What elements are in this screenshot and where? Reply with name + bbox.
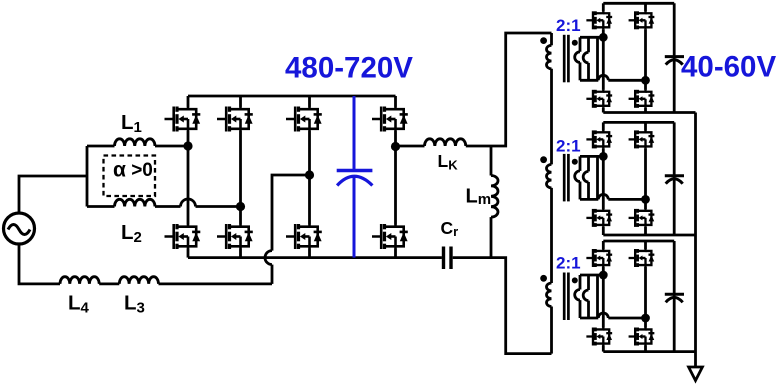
wire bridge1 lega mid	[602, 29, 605, 90]
wire bridge3 lega drain up	[602, 241, 605, 249]
mosfet bridge3 a high-side	[586, 249, 612, 267]
output capacitor C2 lead	[673, 122, 676, 235]
input bridge bottom rail left	[188, 256, 442, 259]
wire L3 to return riser	[159, 282, 273, 285]
label L2	[121, 221, 142, 246]
wire leg3 drain up	[308, 96, 311, 107]
wire bridge3 legb mid	[644, 267, 647, 328]
label 2:1 T3	[556, 254, 581, 273]
dc-link capacitor top plate	[337, 169, 373, 172]
wire leg4 source down	[394, 249, 397, 258]
wire bridge2 lega source down	[602, 227, 605, 235]
output capacitor C3 plate	[665, 293, 684, 296]
label Cr	[441, 218, 459, 239]
node leg4 midpoint	[391, 142, 400, 151]
dc-link capacitor lower lead	[353, 176, 356, 257]
wire hop to leg2 node	[196, 205, 241, 208]
transformer T1 core	[564, 35, 568, 83]
wire bridge3 legb source down	[644, 345, 647, 351]
wire split vertical	[86, 146, 89, 207]
wire bridge3 lega source down	[602, 345, 605, 351]
transformer T1 secondary right side	[596, 37, 599, 80]
wire leg1 drain up	[187, 96, 190, 107]
wire L4 to L3	[99, 282, 119, 285]
wire hop over bottom rail	[265, 251, 272, 265]
ac source V1	[4, 213, 35, 244]
transformer T3 secondary winding b	[583, 275, 588, 318]
label Lm	[466, 186, 492, 209]
transformer T3 secondary right side	[596, 275, 599, 318]
output capacitor C3 lead	[673, 241, 676, 352]
output capacitor C1 plate	[665, 55, 684, 58]
wire primary chain seg0	[550, 33, 553, 45]
mosfet bridge3 b high-side	[629, 249, 655, 267]
transformer T1 primary dot	[540, 37, 547, 44]
bridge2 bottom rail	[603, 234, 695, 237]
svg-text:2:1: 2:1	[556, 254, 581, 273]
bridge1 top rail	[603, 2, 674, 5]
dc-link capacitor upper lead	[353, 96, 356, 172]
mosfet Q5 input leg3 high-side	[286, 107, 322, 132]
wire T2 secondary top to bridge	[580, 155, 603, 158]
bridge2 top rail	[603, 121, 674, 124]
wire leg1 source down	[187, 249, 190, 258]
transformer T1 secondary dot	[572, 40, 578, 46]
wire bridge3 lega mid	[602, 267, 605, 328]
mosfet bridge2 a low-side	[586, 209, 612, 227]
inductor L3	[119, 277, 158, 284]
wire bridge1 lega source down	[602, 108, 605, 113]
wire bridge2 lega mid	[602, 148, 605, 209]
svg-text:480-720V: 480-720V	[285, 52, 413, 85]
transformer T2 core	[564, 154, 568, 202]
bridge1 bottom rail	[603, 111, 695, 114]
dc-link capacitor curved plate	[337, 176, 372, 185]
wire L1 to leg1 node	[155, 145, 188, 148]
output capacitor C1 lead	[673, 3, 676, 112]
wire return riser upper	[272, 175, 310, 251]
wire T1 secondary bottom to leg2	[608, 79, 645, 82]
mosfet Q1 input leg1 high-side	[165, 107, 201, 132]
wire leg1 mid	[187, 131, 190, 224]
output capacitor C2 plate	[665, 174, 684, 177]
node leg1 midpoint	[183, 141, 192, 150]
node bridge2 leg b	[641, 195, 650, 204]
mosfet bridge3 a low-side	[586, 328, 612, 346]
mosfet Q6 input leg3 low-side	[286, 224, 322, 249]
wire bridge2 legb drain up	[644, 122, 647, 130]
wire ac bottom	[19, 244, 60, 284]
wire bridge1 legb source down	[644, 108, 647, 113]
label 40-60V	[681, 51, 776, 84]
mosfet Q2 input leg1 low-side	[165, 224, 201, 249]
wire L2 to hop	[155, 205, 181, 208]
bridge3 top rail	[603, 240, 674, 243]
wire return riser lower	[271, 265, 274, 284]
inductor L2	[115, 199, 155, 206]
wire leg4 mid	[394, 131, 397, 224]
wire leg3 source down	[308, 249, 311, 258]
mosfet bridge1 b high-side	[629, 11, 655, 29]
wire bridge1 legb drain up	[644, 3, 647, 11]
output capacitor C2 curved plate	[666, 179, 683, 184]
label LK	[438, 151, 459, 173]
output capacitor C1 curved plate	[666, 60, 683, 65]
wire Lk to corner riser	[466, 33, 552, 146]
svg-text:2:1: 2:1	[556, 16, 581, 35]
wire T3 secondary bottom to leg2	[608, 317, 645, 320]
output bus right	[694, 113, 697, 369]
wire bridge1 lega drain up	[602, 3, 605, 11]
transformer T1 secondary winding a	[575, 37, 580, 80]
dashed phase box	[104, 156, 156, 197]
transformer T3 secondary winding a	[575, 275, 580, 318]
wire T2 secondary bottom	[580, 198, 598, 201]
wire ac top to split	[19, 176, 87, 213]
bridge3 bottom rail	[603, 350, 695, 353]
wire leg2 mid	[239, 131, 242, 224]
node leg2 midpoint	[236, 202, 245, 211]
wire leg2 source down	[239, 249, 242, 258]
wire primary chain seg2	[550, 188, 553, 283]
mosfet bridge2 b low-side	[629, 209, 655, 227]
inductor Lm	[491, 176, 498, 218]
capacitor Cr plates	[444, 247, 452, 270]
mosfet Q3 input leg2 high-side	[217, 107, 253, 132]
transformer T1 secondary winding b	[583, 37, 588, 80]
mosfet bridge3 b low-side	[629, 328, 655, 346]
node bridge2 leg a	[599, 152, 608, 161]
wire leg2 drain up	[239, 96, 242, 107]
wire T1 secondary bottom	[580, 79, 598, 82]
transformer T3 primary winding	[547, 283, 552, 307]
transformer T2 secondary winding a	[575, 156, 580, 199]
wire bridge3 legb drain up	[644, 241, 647, 249]
svg-text:2:1: 2:1	[556, 137, 581, 156]
label 2:1 T1	[556, 16, 581, 35]
wire leg4 node to Lk	[396, 145, 425, 148]
wire T1 hop over leg	[598, 75, 608, 80]
label L3	[124, 292, 145, 317]
wire T1 secondary top to bridge	[580, 36, 603, 39]
node bridge3 leg a	[599, 271, 608, 280]
transformer T2 secondary right side	[596, 156, 599, 199]
mosfet Q4 input leg2 low-side	[217, 224, 253, 249]
node leg3 midpoint	[305, 170, 314, 179]
wire leg3 mid	[308, 131, 311, 224]
wire Lm lower lead	[490, 217, 493, 258]
node bridge1 leg a	[599, 33, 608, 42]
inductor LK	[425, 139, 466, 146]
inductor L4	[60, 277, 99, 284]
label 480-720V	[285, 52, 413, 85]
mosfet bridge2 a high-side	[586, 130, 612, 148]
wire T3 secondary top to bridge	[580, 274, 603, 277]
wire bridge2 lega drain up	[602, 122, 605, 130]
label alpha >0	[113, 159, 153, 182]
wire bottom branch left	[87, 205, 115, 208]
output capacitor C3 curved plate	[666, 297, 683, 302]
mosfet bridge1 a low-side	[586, 90, 612, 108]
transformer T2 secondary dot	[572, 159, 578, 165]
transformer T3 core	[564, 273, 568, 321]
wire T2 hop over leg	[598, 194, 608, 199]
svg-text:α >0: α >0	[113, 159, 153, 182]
wire primary chain seg1	[550, 69, 553, 165]
wire primary chain to bottom	[550, 307, 553, 354]
wire hop over leg1	[181, 199, 196, 206]
label L4	[68, 292, 90, 317]
transformer T2 secondary winding b	[583, 156, 588, 199]
label L1	[121, 111, 142, 136]
wire bridge1 legb mid	[644, 29, 647, 90]
inductor L1	[115, 139, 155, 146]
mosfet bridge2 b high-side	[629, 130, 655, 148]
ground arrow	[689, 367, 703, 381]
mosfet Q7 input leg4 high-side	[372, 107, 408, 132]
svg-text:40-60V: 40-60V	[681, 51, 776, 84]
wire Cr to primary bottom	[453, 258, 552, 354]
wire bridge2 legb mid	[644, 148, 647, 209]
transformer T2 primary winding	[547, 164, 552, 188]
mosfet bridge1 a high-side	[586, 11, 612, 29]
mosfet Q8 input leg4 low-side	[372, 224, 408, 249]
wire Lm upper lead	[490, 146, 493, 176]
mosfet bridge1 b low-side	[629, 90, 655, 108]
node bridge3 leg b	[641, 314, 650, 323]
transformer T1 primary winding	[547, 45, 552, 69]
input bridge top rail	[188, 95, 396, 98]
wire T2 secondary bottom to leg2	[608, 198, 645, 201]
wire bridge2 legb source down	[644, 227, 647, 235]
label 2:1 T2	[556, 137, 581, 156]
wire leg4 drain up	[394, 96, 397, 107]
transformer T3 primary dot	[540, 275, 547, 282]
transformer T3 secondary dot	[572, 277, 578, 283]
wire top branch left	[87, 145, 115, 148]
wire T3 hop over leg	[598, 313, 608, 318]
node bridge1 leg b	[641, 76, 650, 85]
transformer T2 primary dot	[540, 156, 547, 163]
wire T3 secondary bottom	[580, 317, 598, 320]
